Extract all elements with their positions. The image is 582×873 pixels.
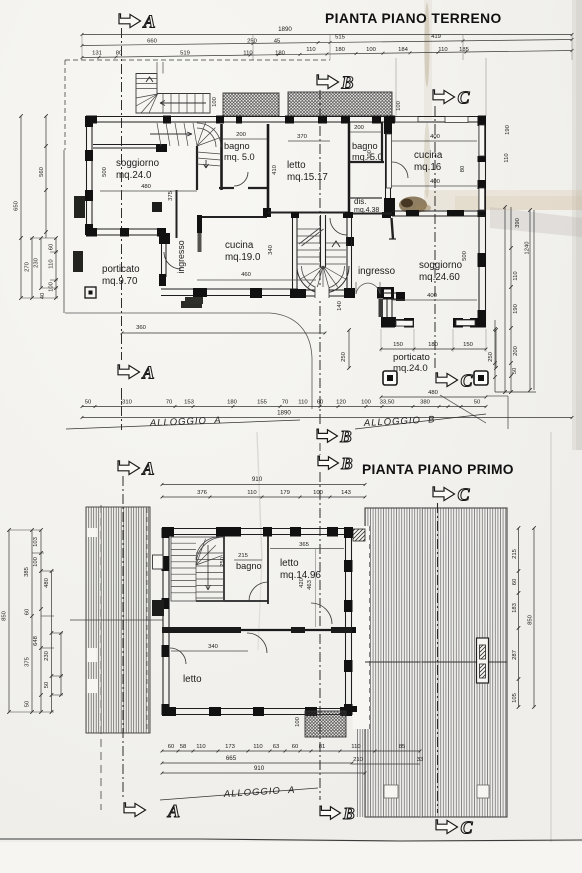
svg-text:120: 120 xyxy=(336,400,347,406)
svg-text:mq.16: mq.16 xyxy=(414,162,442,173)
svg-text:410: 410 xyxy=(272,164,278,175)
svg-text:215: 215 xyxy=(238,553,249,559)
svg-text:400: 400 xyxy=(430,179,441,185)
svg-text:650: 650 xyxy=(14,200,20,211)
svg-text:230: 230 xyxy=(34,257,40,268)
svg-text:110: 110 xyxy=(49,259,55,269)
svg-text:110: 110 xyxy=(243,51,253,57)
svg-text:110: 110 xyxy=(298,400,308,406)
svg-text:340: 340 xyxy=(208,644,219,650)
svg-text:190: 190 xyxy=(505,124,511,135)
svg-text:A: A xyxy=(167,801,180,821)
svg-text:200: 200 xyxy=(236,132,247,138)
svg-text:B: B xyxy=(340,72,353,92)
svg-text:250: 250 xyxy=(220,556,226,567)
svg-text:mq. 5.0: mq. 5.0 xyxy=(224,152,255,162)
svg-text:bagno: bagno xyxy=(224,141,250,151)
svg-text:250: 250 xyxy=(341,351,347,362)
svg-text:300: 300 xyxy=(367,149,373,160)
svg-text:185: 185 xyxy=(459,47,470,53)
svg-text:1890: 1890 xyxy=(278,26,292,33)
svg-text:380: 380 xyxy=(420,400,431,406)
svg-text:100: 100 xyxy=(49,281,55,292)
svg-text:850: 850 xyxy=(528,614,534,625)
svg-text:131: 131 xyxy=(92,51,102,57)
svg-text:1890: 1890 xyxy=(277,410,291,417)
svg-text:110: 110 xyxy=(504,153,510,163)
svg-text:dis.: dis. xyxy=(354,197,366,206)
svg-text:100: 100 xyxy=(313,490,324,496)
svg-text:390: 390 xyxy=(515,217,521,228)
svg-text:60: 60 xyxy=(292,744,299,750)
svg-text:60: 60 xyxy=(49,243,55,250)
svg-text:100: 100 xyxy=(396,100,402,111)
svg-text:190: 190 xyxy=(513,303,519,314)
svg-text:PIANTA PIANO TERRENO: PIANTA PIANO TERRENO xyxy=(325,11,502,26)
svg-text:480: 480 xyxy=(141,184,152,190)
svg-text:270: 270 xyxy=(25,261,31,272)
svg-text:110: 110 xyxy=(253,744,263,750)
svg-text:665: 665 xyxy=(226,755,237,762)
svg-text:110: 110 xyxy=(196,744,206,750)
svg-text:50: 50 xyxy=(474,400,481,406)
svg-text:180: 180 xyxy=(227,400,238,406)
svg-text:mq.24.0: mq.24.0 xyxy=(393,363,428,374)
svg-text:60: 60 xyxy=(168,744,175,750)
svg-text:200: 200 xyxy=(513,345,519,356)
svg-text:103: 103 xyxy=(33,536,39,547)
svg-text:110: 110 xyxy=(513,271,519,281)
svg-text:mq.9.70: mq.9.70 xyxy=(102,276,138,287)
svg-text:180: 180 xyxy=(335,47,346,53)
svg-text:33: 33 xyxy=(417,757,424,763)
svg-text:100: 100 xyxy=(295,716,301,727)
svg-text:50: 50 xyxy=(85,400,92,406)
svg-text:A: A xyxy=(141,362,154,382)
svg-text:porticato: porticato xyxy=(393,352,430,363)
svg-text:50: 50 xyxy=(25,700,31,707)
svg-text:A: A xyxy=(141,458,154,478)
svg-text:soggiorno: soggiorno xyxy=(116,158,160,169)
svg-text:80: 80 xyxy=(460,165,466,172)
svg-text:143: 143 xyxy=(341,490,352,496)
svg-text:153: 153 xyxy=(184,400,195,406)
svg-text:140: 140 xyxy=(337,300,343,311)
svg-text:150: 150 xyxy=(393,342,404,348)
svg-text:mq.19.0: mq.19.0 xyxy=(225,252,261,263)
svg-text:376: 376 xyxy=(197,490,208,496)
svg-text:A: A xyxy=(142,11,155,31)
svg-text:58: 58 xyxy=(180,744,187,750)
svg-text:1240: 1240 xyxy=(525,241,531,255)
svg-text:ingresso: ingresso xyxy=(176,240,186,273)
svg-text:480: 480 xyxy=(428,390,439,396)
svg-text:70: 70 xyxy=(282,400,289,406)
svg-text:50: 50 xyxy=(512,367,518,374)
svg-text:500: 500 xyxy=(102,166,108,177)
svg-text:45: 45 xyxy=(274,39,281,45)
svg-text:155: 155 xyxy=(257,400,268,406)
svg-text:60: 60 xyxy=(512,578,518,585)
svg-text:ingresso: ingresso xyxy=(358,266,396,277)
svg-text:mq.15.17: mq.15.17 xyxy=(287,172,328,183)
svg-text:81: 81 xyxy=(319,744,326,750)
svg-text:180: 180 xyxy=(275,51,286,57)
svg-text:385: 385 xyxy=(24,566,30,577)
svg-text:B: B xyxy=(339,427,351,446)
svg-text:560: 560 xyxy=(39,166,45,177)
svg-text:910: 910 xyxy=(252,476,263,483)
svg-text:C: C xyxy=(460,370,473,390)
svg-text:210: 210 xyxy=(353,757,364,763)
svg-text:250: 250 xyxy=(488,351,494,362)
svg-text:110: 110 xyxy=(306,47,316,53)
svg-text:70: 70 xyxy=(166,400,173,406)
svg-text:360: 360 xyxy=(136,325,147,331)
svg-text:C: C xyxy=(457,484,470,504)
svg-text:850: 850 xyxy=(2,610,8,621)
svg-text:85: 85 xyxy=(399,744,406,750)
svg-text:mq.24.60: mq.24.60 xyxy=(419,272,460,283)
svg-text:C: C xyxy=(460,817,473,837)
svg-text:340: 340 xyxy=(268,244,274,255)
svg-text:400: 400 xyxy=(427,293,438,299)
svg-text:100: 100 xyxy=(366,47,377,53)
svg-text:463: 463 xyxy=(307,579,313,590)
svg-text:287: 287 xyxy=(512,650,518,660)
svg-text:173: 173 xyxy=(225,744,236,750)
svg-text:648: 648 xyxy=(33,635,39,646)
svg-text:419: 419 xyxy=(431,34,441,40)
svg-text:184: 184 xyxy=(398,47,409,53)
svg-text:letto: letto xyxy=(183,674,202,685)
svg-text:porticato: porticato xyxy=(102,264,140,275)
svg-text:179: 179 xyxy=(280,490,290,496)
svg-text:110: 110 xyxy=(351,744,361,750)
svg-text:33,50: 33,50 xyxy=(380,400,395,406)
svg-text:B: B xyxy=(342,804,354,823)
svg-text:letto: letto xyxy=(280,558,299,569)
svg-text:C: C xyxy=(457,87,470,107)
svg-text:370: 370 xyxy=(297,134,308,140)
svg-text:183: 183 xyxy=(512,602,518,613)
svg-text:cucina: cucina xyxy=(414,150,443,161)
svg-text:B: B xyxy=(340,454,352,473)
svg-text:375: 375 xyxy=(168,190,174,201)
svg-text:150: 150 xyxy=(463,342,474,348)
svg-text:bagno: bagno xyxy=(352,141,378,151)
svg-text:soggiorno: soggiorno xyxy=(419,260,463,271)
svg-text:519: 519 xyxy=(180,51,190,57)
svg-text:365: 365 xyxy=(299,542,310,548)
svg-text:910: 910 xyxy=(254,765,265,772)
svg-text:63: 63 xyxy=(273,744,280,750)
svg-text:60: 60 xyxy=(25,608,31,615)
svg-text:660: 660 xyxy=(147,39,158,45)
svg-text:100: 100 xyxy=(212,96,218,107)
svg-text:60: 60 xyxy=(317,400,324,406)
svg-text:letto: letto xyxy=(287,160,306,171)
svg-text:mq.4.38: mq.4.38 xyxy=(354,207,379,214)
svg-text:250: 250 xyxy=(247,39,258,45)
svg-text:100: 100 xyxy=(361,400,372,406)
svg-text:180: 180 xyxy=(428,342,439,348)
svg-text:230: 230 xyxy=(44,650,50,661)
svg-text:110: 110 xyxy=(247,490,257,496)
svg-text:100: 100 xyxy=(33,556,39,567)
svg-text:bagno: bagno xyxy=(236,561,262,571)
svg-text:400: 400 xyxy=(430,134,441,140)
svg-text:mq.24.0: mq.24.0 xyxy=(116,170,152,181)
svg-text:375: 375 xyxy=(25,656,31,667)
svg-text:310: 310 xyxy=(122,400,133,406)
svg-text:50: 50 xyxy=(44,681,50,688)
svg-text:110: 110 xyxy=(438,47,448,53)
svg-text:460: 460 xyxy=(241,272,252,278)
svg-text:420: 420 xyxy=(299,577,305,588)
svg-text:cucina: cucina xyxy=(225,240,254,251)
svg-text:105: 105 xyxy=(512,692,518,703)
svg-text:515: 515 xyxy=(335,35,346,41)
svg-text:215: 215 xyxy=(512,548,518,559)
svg-text:480: 480 xyxy=(44,577,50,588)
svg-text:PIANTA PIANO PRIMO: PIANTA PIANO PRIMO xyxy=(362,462,514,477)
svg-text:200: 200 xyxy=(354,125,365,131)
svg-text:500: 500 xyxy=(462,250,468,261)
